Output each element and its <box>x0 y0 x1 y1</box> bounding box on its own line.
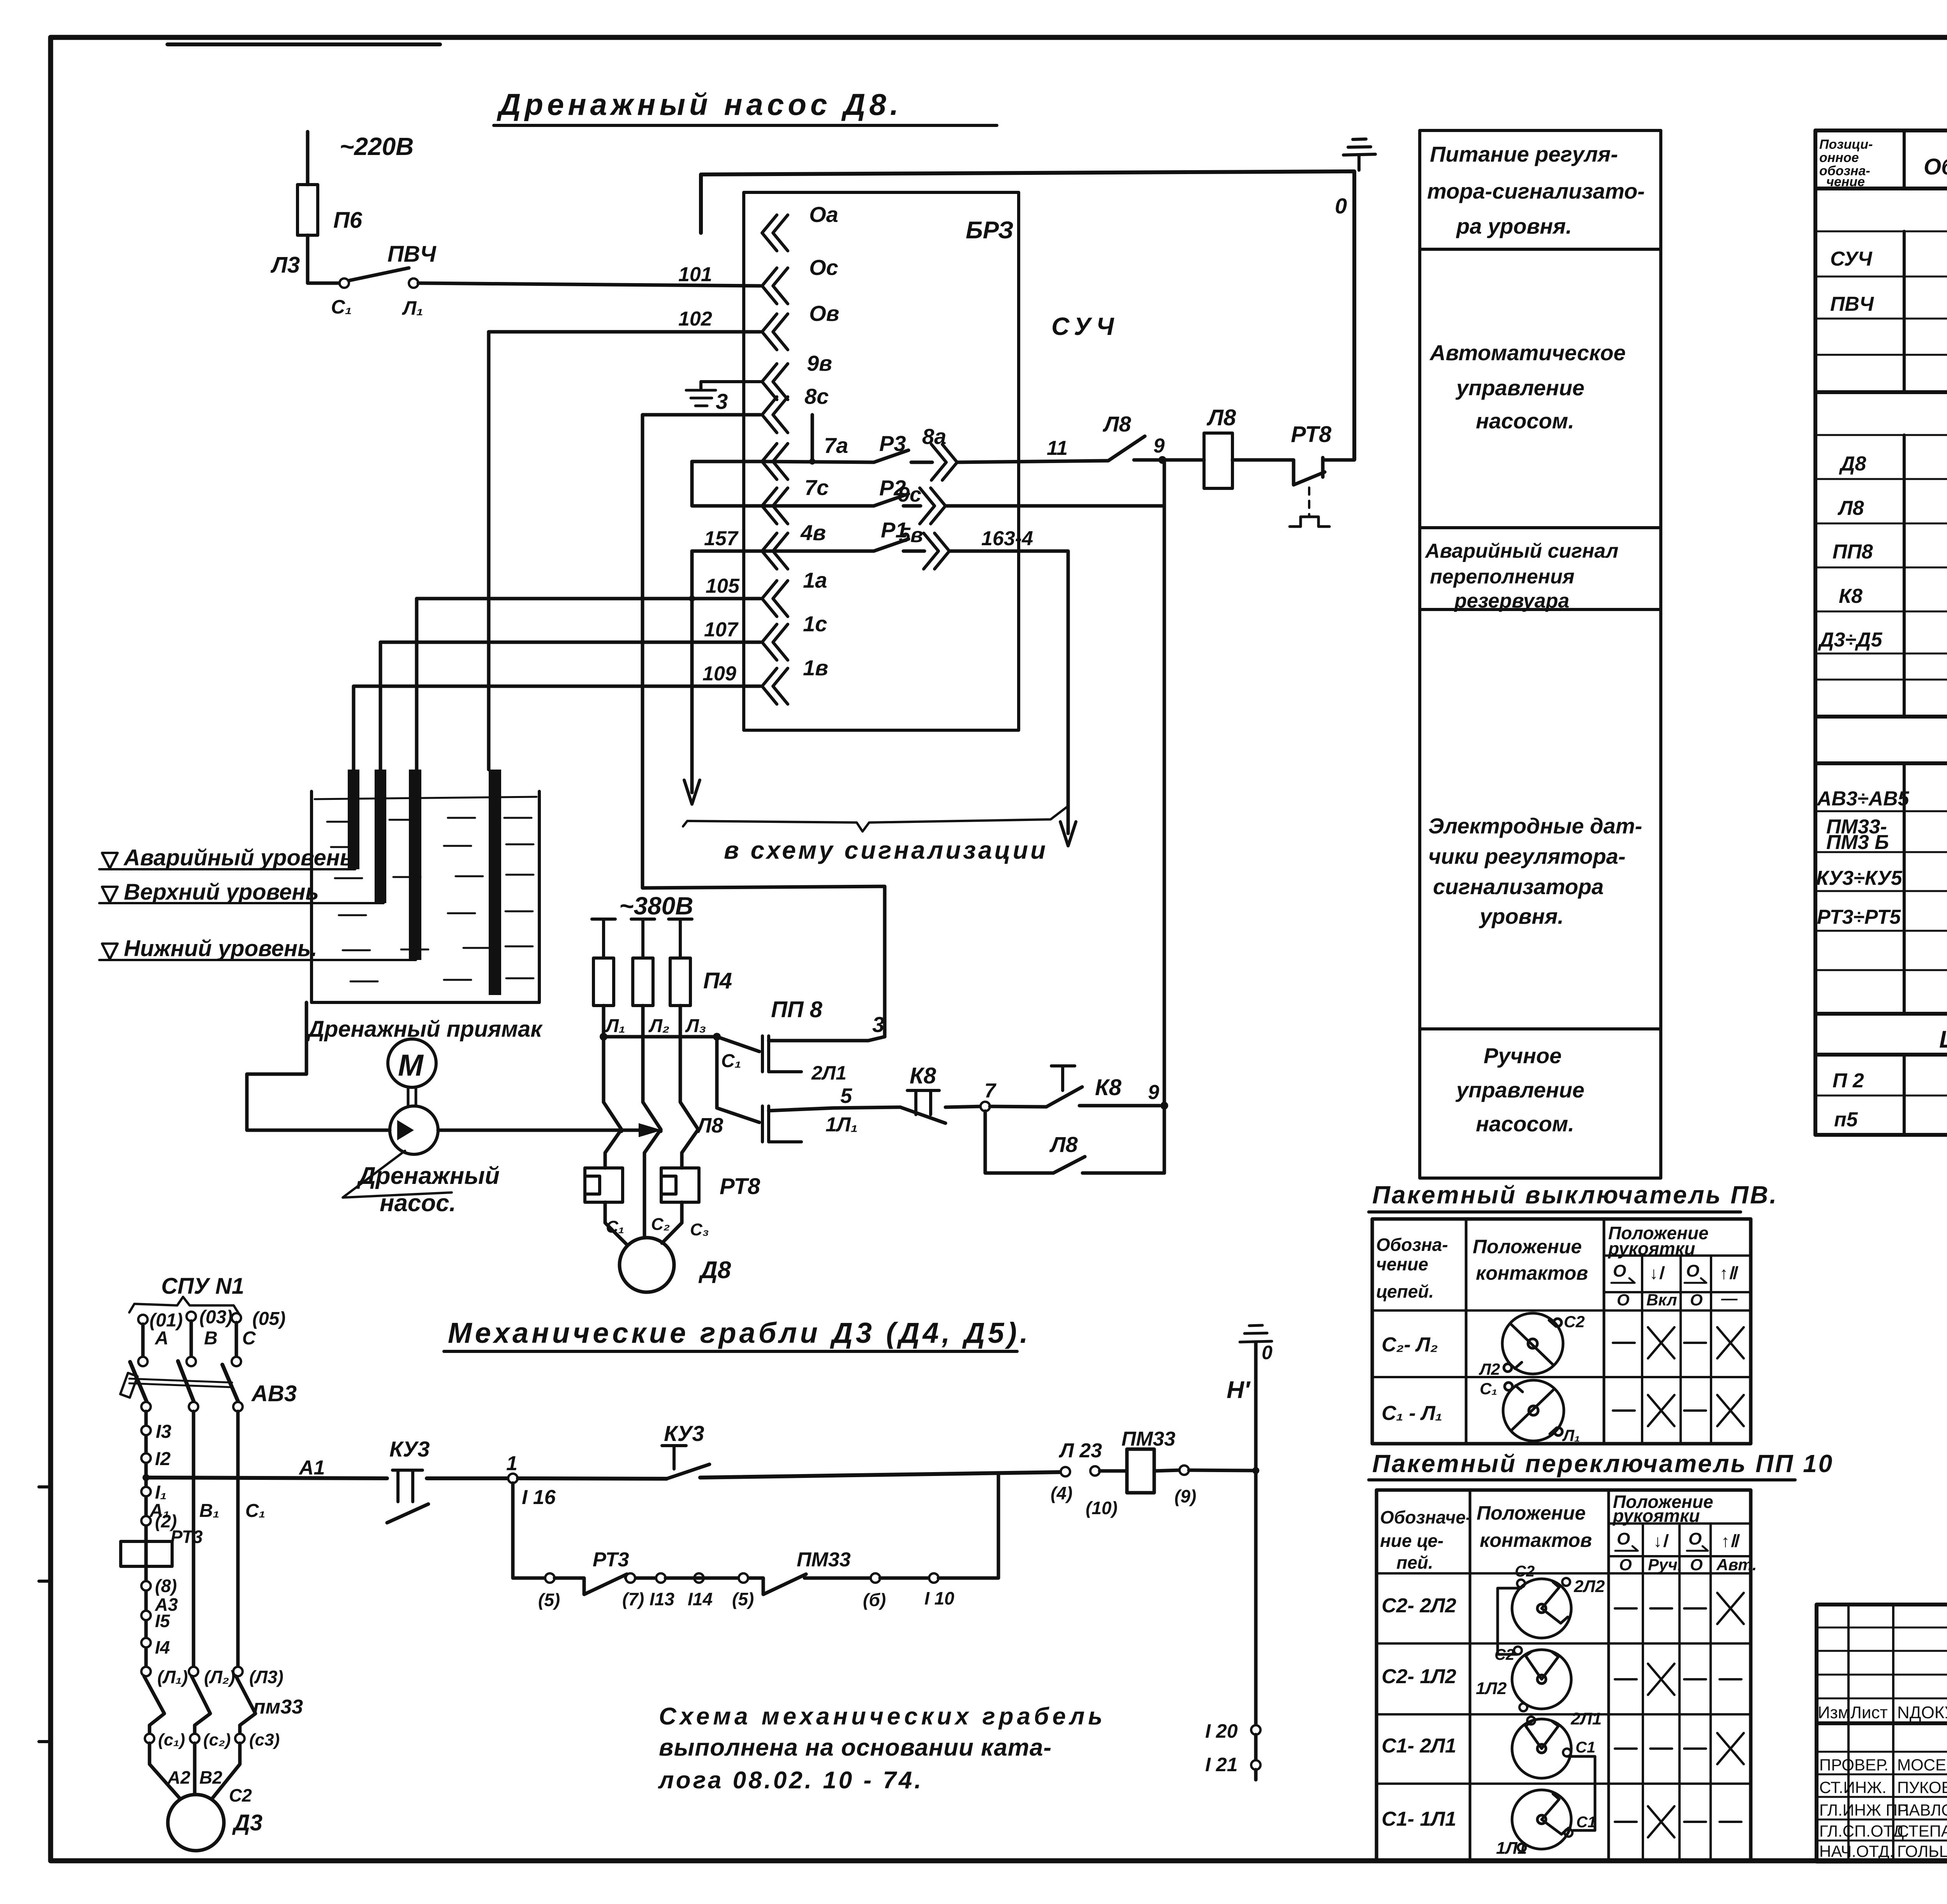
svg-text:I 21: I 21 <box>1205 1754 1238 1775</box>
svg-text:цепей.: цепей. <box>1376 1281 1434 1302</box>
svg-text:Шкаф распределительный.: Шкаф распределительный. <box>1939 1026 1947 1053</box>
rung terminals (4)(10) coil PM33 (9) <box>1061 1467 1070 1476</box>
function column boxes <box>1420 130 1661 1178</box>
phase C column <box>236 1411 240 1672</box>
svg-text:РТ3: РТ3 <box>593 1548 629 1571</box>
svg-text:С₁ - Л₁: С₁ - Л₁ <box>1382 1402 1442 1425</box>
node 9 <box>1158 456 1166 464</box>
svg-text:0: 0 <box>1262 1342 1273 1363</box>
motor D8 <box>605 1202 627 1245</box>
svg-text:В₁: В₁ <box>199 1501 220 1521</box>
svg-text:ПМ33: ПМ33 <box>1121 1428 1176 1450</box>
svg-text:(8): (8) <box>155 1576 177 1596</box>
coil PM33 <box>1127 1449 1154 1493</box>
svg-text:3: 3 <box>872 1012 884 1037</box>
svg-text:контактов: контактов <box>1480 1529 1592 1551</box>
svg-text:О: О <box>1617 1529 1630 1548</box>
svg-text:2Л2: 2Л2 <box>1574 1577 1605 1596</box>
svg-text:4в: 4в <box>800 520 826 545</box>
svg-text:I2: I2 <box>155 1449 171 1469</box>
svg-text:I3: I3 <box>156 1421 171 1442</box>
svg-text:П 2: П 2 <box>1833 1069 1864 1092</box>
svg-text:АВ3÷АВ5: АВ3÷АВ5 <box>1816 787 1910 810</box>
pushbutton K8 start (NO) <box>990 1106 1046 1107</box>
thermal heaters RT8 <box>585 1168 623 1202</box>
svg-text:1с: 1с <box>803 611 827 636</box>
svg-text:(7): (7) <box>622 1589 644 1609</box>
svg-text:п5: п5 <box>1834 1108 1858 1131</box>
wire 9v with ground <box>701 382 760 389</box>
svg-text:МОСЕЕНКО: МОСЕЕНКО <box>1897 1756 1947 1774</box>
svg-text:РТ8: РТ8 <box>1291 422 1332 447</box>
electrode wires down to tank <box>415 599 419 770</box>
svg-text:~220В: ~220В <box>340 132 414 160</box>
svg-text:NДОКУМ: NДОКУМ <box>1897 1703 1947 1722</box>
node 9 right <box>1160 1102 1168 1110</box>
svg-text:Дренажный: Дренажный <box>356 1162 500 1189</box>
svg-text:Л8: Л8 <box>1049 1132 1078 1157</box>
svg-text:8с: 8с <box>805 384 829 409</box>
svg-text:ние це-: ние це- <box>1380 1531 1444 1551</box>
svg-text:ра уровня.: ра уровня. <box>1456 214 1572 238</box>
svg-text:ПВЧ: ПВЧ <box>387 241 437 267</box>
svg-text:(Л₂): (Л₂) <box>204 1667 235 1687</box>
svg-text:1Л₁: 1Л₁ <box>826 1113 858 1136</box>
svg-text:I14: I14 <box>688 1589 713 1609</box>
contactor PM33 main contacts <box>144 1676 255 1734</box>
svg-text:С2- 1Л2: С2- 1Л2 <box>1382 1665 1456 1688</box>
svg-text:(с₁): (с₁) <box>158 1730 185 1749</box>
svg-text:Л8: Л8 <box>695 1114 723 1137</box>
BRZ pin 4v arrow <box>762 533 788 569</box>
svg-text:↓Ⅰ: ↓Ⅰ <box>1653 1532 1669 1551</box>
motor D3 <box>150 1743 240 1798</box>
svg-text:Н′: Н′ <box>1227 1377 1251 1404</box>
L8 self-hold contact bypass <box>985 1111 1053 1173</box>
svg-text:НАЧ.ОТД.: НАЧ.ОТД. <box>1819 1842 1894 1860</box>
contact PM33 (NC) <box>759 1574 806 1594</box>
svg-text:5в: 5в <box>899 523 923 547</box>
svg-text:9в: 9в <box>807 351 832 375</box>
svg-text:1: 1 <box>506 1452 518 1475</box>
svg-text:СПУ N1: СПУ N1 <box>161 1273 244 1299</box>
svg-text:7: 7 <box>984 1080 996 1102</box>
svg-text:Пакетный переключатель ПП 10: Пакетный переключатель ПП 10 <box>1372 1450 1834 1478</box>
svg-text:КУ3÷КУ5: КУ3÷КУ5 <box>1816 867 1903 889</box>
svg-text:ПП 8: ПП 8 <box>771 997 823 1022</box>
svg-text:П4: П4 <box>703 968 732 993</box>
svg-text:Оа: Оа <box>809 202 838 227</box>
svg-text:ГЛ.ИНЖ ПР.: ГЛ.ИНЖ ПР. <box>1819 1801 1910 1819</box>
svg-text:сигнализатора: сигнализатора <box>1433 874 1604 899</box>
phase bus to PP8 <box>604 1035 717 1039</box>
svg-text:Аварийный уровень: Аварийный уровень <box>123 845 353 870</box>
BRZ pin Oa arrow <box>762 215 788 251</box>
fuse P6 <box>298 185 318 235</box>
svg-text:О: О <box>1619 1555 1632 1574</box>
svg-text:С₂: С₂ <box>651 1215 670 1234</box>
svg-text:Л₁: Л₁ <box>605 1016 625 1036</box>
svg-text:(5): (5) <box>732 1589 754 1609</box>
jumper 157 to 1a, arrow to signal circuit <box>690 551 694 793</box>
svg-text:1Л2: 1Л2 <box>1476 1679 1507 1698</box>
svg-text:управление: управление <box>1455 1078 1584 1102</box>
svg-text:105: 105 <box>706 575 740 597</box>
svg-text:ПВЧ: ПВЧ <box>1830 293 1874 315</box>
svg-text:Л₃: Л₃ <box>685 1016 706 1036</box>
phase L2 drop with fuse P4 <box>631 919 655 958</box>
node 7 <box>981 1102 990 1111</box>
svg-text:I4: I4 <box>155 1637 170 1657</box>
svg-text:онное: онное <box>1819 150 1859 165</box>
svg-text:ГЛ.СП.ОТД.: ГЛ.СП.ОТД. <box>1819 1822 1908 1840</box>
svg-text:102: 102 <box>678 308 712 330</box>
svg-text:Ручное: Ручное <box>1484 1043 1561 1068</box>
packet switch PP8 upper pole <box>717 1037 759 1052</box>
svg-text:Л₂: Л₂ <box>648 1016 669 1036</box>
wire row 4v / 157 with contact R1 output 5v <box>692 539 924 551</box>
svg-text:I 16: I 16 <box>522 1486 556 1509</box>
svg-text:109: 109 <box>702 662 736 685</box>
svg-text:СТ.ИНЖ.: СТ.ИНЖ. <box>1819 1778 1887 1797</box>
svg-text:насос.: насос. <box>380 1190 456 1217</box>
svg-text:О: О <box>1617 1291 1630 1309</box>
svg-text:С₃: С₃ <box>690 1220 709 1239</box>
svg-text:Д8: Д8 <box>698 1257 731 1284</box>
svg-text:РТ8: РТ8 <box>720 1174 760 1199</box>
svg-text:Р3: Р3 <box>879 431 906 456</box>
svg-text:чение: чение <box>1826 174 1865 189</box>
svg-text:Л₁: Л₁ <box>1562 1426 1580 1444</box>
ground at top right <box>1343 139 1375 170</box>
title block signature table <box>1817 1605 1947 1862</box>
svg-text:С2: С2 <box>1564 1312 1585 1331</box>
svg-text:101: 101 <box>678 263 712 286</box>
svg-text:ПП8: ПП8 <box>1833 541 1873 563</box>
svg-text:9: 9 <box>1153 435 1165 457</box>
svg-text:К8: К8 <box>1839 585 1863 608</box>
tank (drain sump) <box>312 791 539 1002</box>
svg-text:9с: 9с <box>898 483 921 506</box>
svg-text:(Л3): (Л3) <box>249 1667 283 1687</box>
thermal contact RT8 <box>1232 458 1354 485</box>
pump circle <box>390 1106 438 1154</box>
svg-text:Питание регуля-: Питание регуля- <box>1430 142 1618 166</box>
svg-text:БРЗ: БРЗ <box>966 217 1014 244</box>
svg-text:I 20: I 20 <box>1205 1720 1238 1742</box>
svg-text:ПАВЛОВА: ПАВЛОВА <box>1897 1801 1947 1819</box>
svg-text:С₁: С₁ <box>721 1051 741 1071</box>
svg-text:П6: П6 <box>333 208 363 233</box>
svg-text:Д3÷Д5: Д3÷Д5 <box>1818 629 1883 651</box>
svg-text:1Л1: 1Л1 <box>1496 1839 1527 1858</box>
svg-text:С₁: С₁ <box>1480 1379 1497 1398</box>
svg-text:Авт.: Авт. <box>1716 1555 1757 1574</box>
BRZ pin 8s arrow <box>762 397 788 433</box>
svg-text:О: О <box>1686 1261 1699 1280</box>
svg-text:Д3: Д3 <box>232 1810 262 1835</box>
svg-text:С1: С1 <box>1576 1814 1596 1831</box>
contact L8 (NO) <box>1108 436 1145 461</box>
svg-text:насосом.: насосом. <box>1476 1111 1574 1136</box>
wire 101 to BRZ input Os <box>418 283 760 286</box>
svg-text:(05): (05) <box>252 1309 285 1329</box>
link 8s to 7a inside BRZ <box>811 415 814 461</box>
svg-text:РТ3: РТ3 <box>171 1527 203 1547</box>
neutral bus H1 with ground <box>1252 1467 1259 1474</box>
jumper 7a-7s left <box>692 461 760 506</box>
svg-text:163-4: 163-4 <box>981 527 1033 550</box>
svg-text:I13: I13 <box>650 1589 674 1609</box>
svg-text:управление: управление <box>1455 375 1584 400</box>
level marks <box>99 868 355 870</box>
svg-text:О: О <box>1688 1529 1702 1548</box>
wire row 7a with relay contact R3 <box>760 461 874 462</box>
svg-text:↑Ⅱ: ↑Ⅱ <box>1720 1264 1739 1283</box>
svg-text:С2- 2Л2: С2- 2Л2 <box>1382 1594 1456 1617</box>
fold marks on left border <box>39 1487 51 1742</box>
svg-text:С1: С1 <box>1576 1739 1595 1756</box>
svg-text:2Л1: 2Л1 <box>1570 1709 1602 1728</box>
svg-text:К8: К8 <box>910 1063 937 1089</box>
breaker AV3 <box>130 1361 238 1402</box>
svg-text:Л8: Л8 <box>1102 412 1131 436</box>
holding branch from node 1 <box>513 1483 545 1578</box>
svg-text:Дренажный насос Д8.: Дренажный насос Д8. <box>496 87 902 122</box>
svg-text:в схему сигнализации: в схему сигнализации <box>724 836 1048 864</box>
bracket to signalling circuit <box>683 807 1067 831</box>
svg-text:Механические грабли Д3 (Д4,: Механические грабли Д3 (Д4, Д5). <box>448 1317 1031 1349</box>
svg-text:I5: I5 <box>155 1611 171 1631</box>
svg-text:О: О <box>1613 1261 1626 1280</box>
svg-text:(б): (б) <box>863 1590 886 1610</box>
svg-text:0: 0 <box>1335 194 1347 218</box>
svg-text:тора-сигнализато-: тора-сигнализато- <box>1427 179 1645 203</box>
svg-text:насосом.: насосом. <box>1476 409 1574 433</box>
BRZ pin 1s arrow <box>762 624 788 660</box>
svg-text:Руч.: Руч. <box>1648 1555 1682 1574</box>
svg-text:А: А <box>155 1328 169 1349</box>
wire row 1s / 107 from electrode 2 <box>380 641 760 644</box>
svg-text:К8: К8 <box>1095 1075 1122 1100</box>
svg-text:рукоятки: рукоятки <box>1607 1238 1695 1259</box>
svg-text:Автоматическое: Автоматическое <box>1429 340 1626 365</box>
svg-text:чики регулятора-: чики регулятора- <box>1428 844 1625 868</box>
suction pipe from tank <box>247 1002 390 1130</box>
svg-text:3: 3 <box>716 389 728 414</box>
block BRZ (level regulator) <box>744 192 1019 730</box>
bus node9 vertical <box>1163 460 1166 1173</box>
phase L1 drop with fuse P4 <box>592 919 615 958</box>
svg-text:А2: А2 <box>167 1767 190 1788</box>
svg-text:переполнения: переполнения <box>1430 565 1574 588</box>
svg-text:Вкл: Вкл <box>1646 1291 1677 1309</box>
svg-text:Верхний уровень: Верхний уровень <box>124 879 319 905</box>
svg-text:М: М <box>398 1048 424 1082</box>
control rung A1 <box>146 1478 387 1478</box>
svg-text:Лист: Лист <box>1850 1703 1888 1722</box>
svg-text:СУЧ: СУЧ <box>1051 312 1119 340</box>
phase A column with terminals <box>144 1411 148 1672</box>
svg-text:СУЧ: СУЧ <box>1830 248 1873 270</box>
svg-text:рукоятки: рукоятки <box>1612 1506 1700 1526</box>
bus 0 from BRZ Oa to ground and RT8 <box>701 171 1354 460</box>
svg-text:Позици-: Позици- <box>1819 137 1873 152</box>
BRZ pin Os arrow <box>762 268 788 304</box>
svg-text:Обозначе-: Обозначе- <box>1380 1507 1472 1527</box>
link brackets between rotary positions <box>1498 1588 1521 1654</box>
svg-text:Дренажный приямак: Дренажный приямак <box>306 1016 543 1042</box>
wire 8s / node 3 column down to PP8 <box>643 415 885 1037</box>
wire Ov 102 from electrode4 column <box>489 330 760 334</box>
svg-text:Д8: Д8 <box>1839 453 1866 475</box>
svg-text:С1- 1Л1: С1- 1Л1 <box>1382 1808 1456 1830</box>
svg-text:КУ3: КУ3 <box>389 1437 430 1461</box>
svg-text:1в: 1в <box>803 655 828 680</box>
svg-text:Положение: Положение <box>1477 1502 1586 1524</box>
svg-text:(с3): (с3) <box>249 1730 280 1749</box>
svg-text:Л8: Л8 <box>1206 405 1236 430</box>
svg-text:Л2: Л2 <box>1479 1360 1500 1378</box>
label drainage pump with leader <box>343 1151 452 1198</box>
svg-text:С2: С2 <box>229 1785 252 1805</box>
svg-text:РТ3÷РТ5: РТ3÷РТ5 <box>1817 906 1901 928</box>
svg-text:ПМ3 Б: ПМ3 Б <box>1826 831 1889 854</box>
svg-text:Пакетный выключатель ПВ.: Пакетный выключатель ПВ. <box>1372 1181 1778 1209</box>
svg-text:выполнена на основании ката-: выполнена на основании ката- <box>659 1734 1052 1761</box>
coil L8 <box>1204 433 1232 488</box>
phase L3 drop with fuse P4 <box>669 919 692 958</box>
wire from fuse to contact C1 <box>308 235 340 283</box>
electrode bars <box>348 770 359 869</box>
wire 220V drop <box>306 132 310 185</box>
wire 163-4 to signal arrow <box>950 551 1068 833</box>
svg-text:пм33: пм33 <box>253 1696 303 1718</box>
svg-text:157: 157 <box>704 527 739 550</box>
BRZ pin Ov arrow <box>762 314 788 350</box>
svg-text:7а: 7а <box>824 433 848 458</box>
svg-text:О: О <box>1690 1555 1703 1574</box>
svg-text:С₁: С₁ <box>606 1217 624 1236</box>
svg-text:(5): (5) <box>538 1590 560 1610</box>
svg-text:ПУКОВА: ПУКОВА <box>1897 1778 1947 1797</box>
svg-text:уровня.: уровня. <box>1479 904 1564 928</box>
svg-text:7с: 7с <box>805 475 829 500</box>
svg-text:↑Ⅱ: ↑Ⅱ <box>1721 1532 1740 1551</box>
svg-text:лога 08.02. 10 - 74.: лога 08.02. 10 - 74. <box>658 1767 923 1794</box>
node 1 <box>508 1474 518 1483</box>
svg-text:Ов: Ов <box>809 301 839 326</box>
svg-text:Электродные дат-: Электродные дат- <box>1428 814 1642 838</box>
svg-text:1а: 1а <box>803 568 827 592</box>
motor M of drainage pump <box>388 1039 436 1087</box>
start button KU3 (NO) <box>518 1478 667 1479</box>
svg-text:—: — <box>1721 1289 1738 1307</box>
BRZ pin 1a arrow <box>762 581 788 616</box>
switch PVCh (packet switch contact C1-L1) <box>340 278 349 288</box>
svg-text:(4): (4) <box>1051 1483 1072 1503</box>
BRZ pin 7a arrow <box>762 444 788 479</box>
svg-text:(с₂): (с₂) <box>203 1730 231 1749</box>
wire row 1v / 109 from electrode 1 <box>354 685 760 688</box>
svg-text:Л8: Л8 <box>1837 497 1864 520</box>
svg-text:2Л1: 2Л1 <box>811 1062 847 1084</box>
phase B column <box>192 1411 195 1672</box>
pushbutton K8 stop (NC) <box>833 1107 900 1108</box>
svg-text:В: В <box>204 1328 218 1349</box>
svg-text:(9): (9) <box>1174 1486 1196 1506</box>
svg-text:КУ3: КУ3 <box>664 1421 704 1446</box>
BRZ pin 9v arrow <box>762 364 788 400</box>
svg-text:Изм: Изм <box>1818 1703 1850 1722</box>
svg-text:ПРОВЕР.: ПРОВЕР. <box>1819 1756 1889 1774</box>
svg-text:Схема механических грабель: Схема механических грабель <box>659 1703 1106 1730</box>
BRZ output arrow 8a <box>931 444 957 480</box>
wire row 1a / 105 from electrode 3 <box>417 597 760 601</box>
svg-text:Л 23: Л 23 <box>1058 1439 1102 1462</box>
svg-text:~380В: ~380В <box>619 892 693 920</box>
contactor L8 main contacts <box>604 1102 621 1131</box>
svg-text:В2: В2 <box>199 1767 222 1788</box>
svg-text:С₁: С₁ <box>331 296 352 318</box>
svg-text:5: 5 <box>840 1084 852 1108</box>
svg-text:С2: С2 <box>1515 1563 1535 1580</box>
svg-text:↓Ⅰ: ↓Ⅰ <box>1649 1264 1665 1283</box>
svg-text:контактов: контактов <box>1476 1262 1588 1284</box>
parts list table <box>1815 129 1947 132</box>
svg-text:О: О <box>1690 1291 1703 1309</box>
svg-text:Положение: Положение <box>1473 1236 1582 1258</box>
svg-text:С₁: С₁ <box>245 1501 266 1521</box>
svg-text:8а: 8а <box>922 424 946 449</box>
svg-text:А1: А1 <box>298 1457 325 1479</box>
svg-text:107: 107 <box>704 618 739 641</box>
svg-text:чение: чение <box>1376 1254 1428 1274</box>
svg-text:I₁: I₁ <box>155 1482 167 1503</box>
svg-text:Обозначение.: Обозначение. <box>1924 154 1947 180</box>
BRZ pin 1v arrow <box>762 668 788 704</box>
heater RT3 <box>121 1541 172 1566</box>
svg-text:Л3: Л3 <box>270 252 300 278</box>
svg-text:пей.: пей. <box>1396 1552 1433 1573</box>
svg-text:ПМ33: ПМ33 <box>797 1548 851 1571</box>
svg-text:9: 9 <box>1148 1081 1159 1104</box>
svg-text:(10): (10) <box>1086 1498 1118 1518</box>
svg-text:С₂- Л₂: С₂- Л₂ <box>1382 1333 1438 1356</box>
svg-text:СТЕПАНЕНКО: СТЕПАНЕНКО <box>1897 1822 1947 1840</box>
svg-text:Л₁: Л₁ <box>402 297 423 319</box>
svg-text:ГОЛЬЦМАН: ГОЛЬЦМАН <box>1897 1842 1947 1860</box>
svg-text:С1- 2Л1: С1- 2Л1 <box>1382 1735 1456 1757</box>
svg-text:Обозна-: Обозна- <box>1376 1235 1448 1255</box>
contact RT3 (NC) <box>555 1574 627 1594</box>
svg-text:Нижний уровень.: Нижний уровень. <box>124 936 317 961</box>
wire 11 to L8 contact and node 9 <box>958 461 1108 462</box>
discharge pipe with arrow <box>438 1129 646 1132</box>
wire row 7s with relay contact R2 and output 9s <box>760 494 921 506</box>
BRZ pin 7s arrow <box>762 488 788 524</box>
PP8 lower pole <box>717 1037 759 1122</box>
svg-text:I 10: I 10 <box>924 1588 954 1608</box>
svg-text:Ос: Ос <box>809 255 838 280</box>
svg-text:(Л₁): (Л₁) <box>157 1667 188 1687</box>
svg-text:С: С <box>242 1328 256 1349</box>
svg-text:Аварийный сигнал: Аварийный сигнал <box>1424 540 1618 562</box>
svg-text:11: 11 <box>1047 437 1068 460</box>
svg-text:АВ3: АВ3 <box>251 1381 297 1406</box>
svg-text:резервуара: резервуара <box>1454 590 1569 612</box>
shaft <box>408 1087 416 1106</box>
